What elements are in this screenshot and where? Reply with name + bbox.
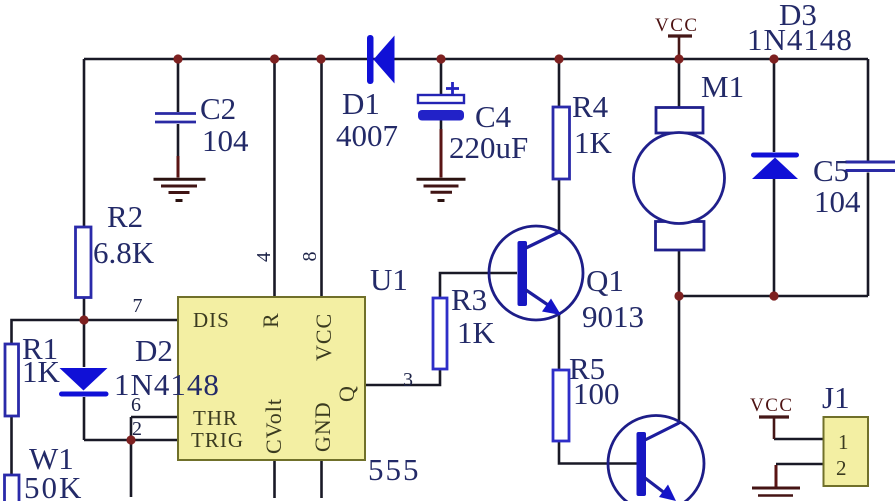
wire CVolt pin bottom bbox=[273, 460, 276, 498]
svg-text:D2: D2 bbox=[135, 333, 173, 368]
ground J1 bbox=[752, 465, 800, 496]
svg-text:TRIG: TRIG bbox=[191, 428, 244, 452]
node C4 top bbox=[436, 54, 445, 63]
node pin4 top bbox=[270, 54, 279, 63]
wire top rail bbox=[84, 58, 868, 61]
svg-text:R: R bbox=[258, 312, 283, 328]
svg-text:R4: R4 bbox=[572, 89, 609, 124]
wire Q2 collector up bbox=[678, 296, 681, 424]
svg-text:Q1: Q1 bbox=[586, 263, 624, 298]
VCC symbol J1 bbox=[750, 395, 794, 439]
wire C2 top bbox=[177, 59, 180, 112]
node D3 bottom bbox=[769, 291, 778, 300]
node R4 top bbox=[554, 54, 563, 63]
node C2 top bbox=[173, 54, 182, 63]
wire GND pin bottom bbox=[320, 460, 323, 498]
resistor R5 100 bbox=[553, 351, 620, 441]
svg-text:D1: D1 bbox=[342, 86, 380, 121]
svg-text:VCC: VCC bbox=[311, 313, 336, 361]
node pin8 top bbox=[316, 54, 325, 63]
wire R4 bottom to Q1 collector bbox=[558, 179, 561, 232]
svg-text:220uF: 220uF bbox=[449, 130, 528, 165]
wire THR to TRIG link bbox=[130, 417, 133, 440]
node M1 bottom bbox=[674, 291, 683, 300]
wire right vertical below C5 bbox=[867, 173, 870, 297]
svg-text:50K: 50K bbox=[24, 470, 83, 501]
wire THR pin 6 bbox=[131, 416, 178, 419]
wire D3 bottom bbox=[773, 179, 776, 296]
wire node to R1 top bbox=[12, 320, 85, 345]
wire Q1 emitter to R5 bbox=[558, 314, 561, 369]
transistor Q2 bbox=[608, 416, 704, 501]
resistor R4 1K bbox=[553, 89, 613, 179]
svg-text:THR: THR bbox=[193, 406, 238, 430]
svg-text:100: 100 bbox=[573, 376, 620, 411]
node D3 top bbox=[769, 54, 778, 63]
svg-text:R2: R2 bbox=[107, 199, 143, 234]
capacitor C4 220uF bbox=[418, 82, 528, 165]
resistor R3 1K bbox=[433, 282, 496, 369]
potentiometer W1 50K bbox=[5, 441, 84, 501]
wire R4 top bbox=[558, 59, 561, 107]
svg-text:104: 104 bbox=[202, 123, 249, 158]
wire R3 top to Q1 base bbox=[440, 273, 517, 298]
svg-text:R3: R3 bbox=[451, 282, 487, 317]
wire wiper down from TRIG node bbox=[130, 440, 133, 497]
motor M1 bbox=[634, 69, 745, 250]
capacitor C5 104 bbox=[813, 153, 895, 219]
wire C4 top bbox=[440, 59, 443, 95]
diode D2 1N4148 bbox=[59, 368, 109, 397]
wire D3 top bbox=[773, 59, 776, 152]
svg-text:9013: 9013 bbox=[582, 299, 644, 334]
wire pin 8 bbox=[320, 59, 323, 297]
wire left vertical to R2 bbox=[83, 59, 86, 227]
wire C2 bottom to ground bbox=[177, 124, 180, 156]
wire R2 bottom to node bbox=[83, 297, 86, 320]
svg-text:1K: 1K bbox=[574, 125, 613, 160]
ground C2 bbox=[154, 156, 206, 201]
svg-text:1K: 1K bbox=[457, 315, 496, 350]
op-amp U1 555 timer body bbox=[178, 262, 421, 487]
diode D1 4007 bbox=[336, 35, 398, 153]
connector J1 bbox=[822, 380, 868, 486]
svg-text:1N4148: 1N4148 bbox=[747, 22, 853, 57]
svg-text:1K: 1K bbox=[22, 354, 61, 389]
svg-text:CVolt: CVolt bbox=[261, 398, 286, 454]
wire M1 bottom bbox=[678, 250, 681, 296]
svg-text:4007: 4007 bbox=[336, 118, 398, 153]
svg-text:1: 1 bbox=[838, 430, 849, 454]
svg-text:7: 7 bbox=[133, 295, 143, 317]
wire bottom motor rail bbox=[679, 295, 868, 298]
wire pin 3 to R3 bbox=[365, 369, 440, 385]
label D2 value bbox=[114, 333, 220, 402]
svg-text:2: 2 bbox=[836, 456, 847, 480]
ground C4 bbox=[417, 129, 466, 201]
resistor R1 1K bbox=[5, 331, 61, 416]
svg-text:Q: Q bbox=[334, 385, 359, 402]
svg-text:6.8K: 6.8K bbox=[93, 235, 155, 270]
node TRIG bbox=[126, 435, 135, 444]
svg-text:C2: C2 bbox=[200, 91, 236, 126]
wire R1 bottom to W1 bbox=[10, 416, 13, 475]
svg-text:3: 3 bbox=[403, 369, 413, 391]
wire J1 VCC horizontal bbox=[774, 438, 823, 441]
diode D3 1N4148 bbox=[747, 0, 853, 179]
svg-text:6: 6 bbox=[131, 394, 141, 416]
svg-text:M1: M1 bbox=[701, 69, 744, 104]
VCC symbol top bbox=[655, 15, 699, 59]
svg-text:DIS: DIS bbox=[193, 308, 230, 332]
svg-text:4: 4 bbox=[253, 252, 275, 262]
svg-text:C4: C4 bbox=[475, 99, 512, 134]
svg-text:U1: U1 bbox=[370, 262, 408, 297]
wire node to D2 anode bbox=[83, 320, 86, 367]
wire pin 4 bbox=[273, 59, 276, 297]
node VCC M1 bbox=[674, 54, 683, 63]
svg-text:GND: GND bbox=[310, 401, 335, 452]
capacitor C2 bbox=[155, 91, 249, 158]
transistor Q1 9013 bbox=[489, 226, 644, 334]
svg-text:8: 8 bbox=[299, 252, 321, 262]
wire R5 bottom to Q2 base bbox=[559, 441, 637, 464]
wire D2 cathode to TRIG net bbox=[83, 397, 86, 440]
wire M1 top bbox=[678, 59, 681, 108]
svg-text:1N4148: 1N4148 bbox=[114, 367, 220, 402]
wire J1 pin2 horizontal bbox=[776, 463, 823, 466]
resistor R2 6.8K bbox=[76, 199, 155, 298]
svg-text:C5: C5 bbox=[813, 153, 849, 188]
svg-text:104: 104 bbox=[814, 184, 861, 219]
node R2 bottom bbox=[79, 315, 88, 324]
wire DIS pin 7 bbox=[84, 319, 178, 322]
wire right vertical above C5 bbox=[867, 59, 870, 161]
svg-text:VCC: VCC bbox=[750, 395, 794, 416]
svg-text:VCC: VCC bbox=[655, 15, 699, 36]
wire TRIG pin 2 bbox=[84, 439, 178, 442]
svg-text:J1: J1 bbox=[822, 380, 850, 415]
svg-text:555: 555 bbox=[368, 452, 421, 487]
wire C4 bottom bbox=[440, 121, 443, 131]
